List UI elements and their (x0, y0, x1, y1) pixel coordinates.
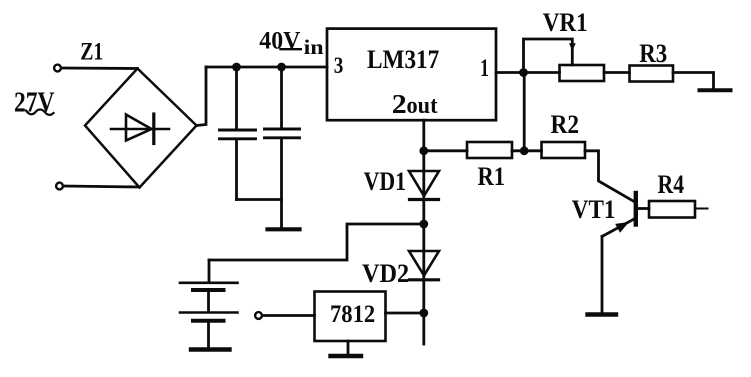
svg-text:VR1: VR1 (543, 8, 588, 37)
node junction 7812 out (419, 309, 428, 318)
ground VT1 (588, 312, 617, 316)
underline under V of 40V (281, 48, 301, 50)
svg-text:40V: 40V (259, 28, 300, 55)
diode VD2 (409, 224, 439, 313)
terminal AC bottom (56, 183, 63, 190)
label 40Vin (259, 28, 324, 59)
svg-text:1: 1 (480, 55, 489, 82)
battery (180, 260, 238, 350)
svg-text:VD1: VD1 (364, 167, 406, 196)
node junction cap1 (232, 63, 241, 72)
resistor R3 (630, 66, 674, 82)
wire R1 to R2 (512, 149, 542, 152)
wire pin1 junction down (523, 73, 526, 151)
ground caps (268, 227, 300, 231)
bridge rectifier Z1 (85, 69, 197, 188)
wire 7812 input (263, 314, 315, 317)
wire top rail (206, 66, 327, 69)
svg-text:R1: R1 (478, 162, 506, 191)
svg-text:VD2: VD2 (362, 259, 409, 288)
node junction cap2 (277, 63, 286, 72)
svg-text:VT1: VT1 (572, 195, 616, 224)
potentiometer VR1 body (560, 65, 605, 81)
VT1 emitter (602, 219, 634, 237)
svg-text:Z1: Z1 (80, 39, 103, 66)
node junction R1-R2 (520, 146, 529, 155)
capacitor C2 (265, 67, 300, 227)
wire out junction to R1 (424, 149, 467, 152)
wire pin1 to VR1 (496, 71, 560, 74)
diode inside Z1 (111, 114, 169, 144)
resistor R4 (649, 201, 695, 218)
wire VR1 to R3 (604, 71, 630, 74)
wire cap bottoms link (237, 198, 282, 201)
wire (64, 186, 140, 187)
node junction out (419, 146, 428, 155)
wire bridge output riser (197, 67, 207, 126)
diode VD1 (409, 151, 439, 224)
transistor VT1 base bar (634, 193, 638, 225)
svg-text:in: in (304, 35, 324, 59)
terminal AC top (54, 65, 61, 72)
VT1 emitter arrowhead (615, 222, 629, 233)
VR1 wiper arrowhead (569, 43, 576, 50)
svg-text:R2: R2 (551, 110, 580, 139)
wire (62, 67, 138, 70)
wire R3 to ground (673, 73, 714, 89)
ground R3 (700, 88, 731, 92)
wire 7812 ground stub (347, 341, 350, 354)
svg-text:2: 2 (392, 89, 407, 119)
wire R4 stub (695, 208, 708, 210)
svg-text:R3: R3 (639, 39, 667, 68)
wire to battery (209, 224, 424, 260)
resistor R2 (542, 142, 586, 158)
svg-text:out: out (407, 93, 438, 119)
svg-text:R4: R4 (658, 170, 685, 199)
capacitor C1 (220, 67, 256, 200)
wire wiper loop (524, 39, 573, 73)
svg-text:3: 3 (334, 53, 344, 79)
wire collector to R4 (636, 207, 649, 210)
regulator U1 LM317 box (327, 29, 496, 121)
ground 7812 (331, 354, 362, 358)
svg-text:LM317: LM317 (367, 44, 439, 74)
svg-text:7812: 7812 (330, 299, 375, 328)
terminal 7812 input (255, 312, 262, 319)
node junction pin1 (519, 68, 528, 77)
wire output end (422, 313, 425, 344)
wire 7812 output (386, 312, 425, 315)
node junction VD1-VD2 (419, 220, 428, 229)
AC squiggle under 27V (26, 110, 54, 115)
wire out pin down (422, 120, 425, 151)
wire R2 to VT1 (585, 151, 634, 202)
resistor R1 (467, 142, 512, 158)
regulator U2 7812 box (315, 292, 386, 342)
wire emitter down (601, 236, 604, 313)
